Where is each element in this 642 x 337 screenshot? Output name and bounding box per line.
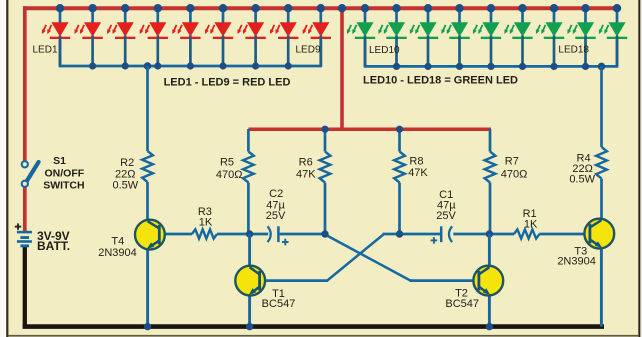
svg-text:470Ω: 470Ω: [501, 168, 528, 180]
svg-text:BC547: BC547: [262, 298, 296, 310]
wire: T1 collector/emitter vertical: [248, 234, 251, 267]
LED6 (red): [205, 10, 233, 66]
wire: T4 emitter to ground: [146, 248, 149, 327]
LED8 (red): [270, 10, 298, 66]
wire: T1 base horizontal: [261, 279, 328, 282]
capacitor C2 47u 25V: [268, 226, 279, 242]
C1 plus sign: [431, 239, 438, 241]
transistor T3 2N3904: [584, 219, 614, 249]
svg-text:47K: 47K: [296, 168, 316, 180]
junction: red drop on top rail: [338, 4, 346, 12]
resistor R3 1K: [192, 229, 217, 238]
LED13 (green): [441, 10, 469, 66]
svg-text:S1: S1: [53, 155, 66, 167]
LED11 (green): [378, 10, 406, 66]
wire: top positive supply rail: [23, 6, 621, 10]
svg-text:2N3904: 2N3904: [557, 255, 596, 267]
wire: R1 to T3 base: [540, 233, 589, 236]
svg-text:C2: C2: [269, 188, 283, 200]
C2 plus sign: [282, 241, 289, 243]
svg-text:LED1: LED1: [32, 45, 57, 56]
wire: red drop from top rail to mid rail: [340, 8, 344, 131]
junction dots on mid rail: [321, 126, 328, 133]
battery BATT 3V-9V: [17, 231, 32, 247]
svg-text:BC547: BC547: [445, 298, 479, 310]
resistor R1 1K: [514, 229, 540, 238]
capacitor C1 47u 25V: [441, 226, 452, 242]
LED4 (red): [140, 10, 168, 66]
wire: ground rail (battery negative): [23, 246, 27, 327]
LED14 (green): [473, 10, 501, 66]
svg-text:R8: R8: [409, 156, 423, 168]
wire: diagonal R6-junction to T2 base: [325, 234, 411, 280]
svg-text:0.5W: 0.5W: [569, 174, 595, 186]
resistor R4 22ohm 0.5W: [596, 66, 607, 220]
svg-text:T4: T4: [111, 236, 124, 248]
wire: R3 to C2: [217, 233, 268, 236]
wire: green LED cathode bus: [364, 40, 367, 67]
junction dots on ground rail: [144, 323, 151, 330]
junction dots on base line: [246, 230, 253, 237]
wire: T2 collector/emitter vertical: [488, 234, 491, 267]
junction: R4 tap on green bus: [598, 63, 606, 71]
svg-text:0.5W: 0.5W: [113, 180, 139, 192]
resistor R8 47K: [394, 129, 405, 234]
resistor R5 470ohm: [243, 129, 254, 234]
resistor R6 47K: [320, 129, 331, 234]
svg-text:R5: R5: [220, 157, 234, 169]
LED3 (red): [107, 10, 135, 66]
svg-text:2N3904: 2N3904: [98, 247, 137, 259]
junction dots: red LED bus: [89, 62, 96, 69]
svg-text:25V: 25V: [436, 210, 456, 222]
wire: T3 emitter to ground: [600, 247, 603, 327]
wire: diagonal T1 base to right line: [327, 234, 384, 280]
LED10 (green): [347, 10, 375, 66]
LED5 (red): [172, 10, 200, 66]
switch S1: [22, 161, 39, 187]
transistor T2 BC547: [473, 266, 503, 296]
wire: mid positive rail feeding collector resistors: [248, 127, 491, 131]
svg-text:470Ω: 470Ω: [216, 169, 243, 181]
LED9 (red): [303, 10, 331, 66]
LED2 (red): [75, 10, 103, 66]
wire: to R8 junction and C1: [383, 233, 440, 236]
svg-text:1K: 1K: [199, 216, 213, 228]
svg-text:LED18: LED18: [558, 45, 589, 56]
wire: left supply from rail to switch: [23, 6, 27, 161]
svg-text:LED10 - LED18 = GREEN LED: LED10 - LED18 = GREEN LED: [363, 74, 518, 86]
svg-text:R6: R6: [299, 157, 313, 169]
transistor T1 BC547: [235, 266, 265, 296]
junction dots: top rail: [56, 4, 64, 12]
svg-text:ON/OFF: ON/OFF: [45, 167, 85, 179]
svg-text:R7: R7: [505, 156, 519, 168]
LED16 (green): [536, 10, 564, 66]
LED12 (green): [410, 10, 438, 66]
transistor T4 2N3904: [135, 220, 165, 250]
wire: switch to battery positive: [23, 187, 27, 233]
resistor R7 470ohm: [485, 129, 496, 234]
svg-text:LED10: LED10: [369, 45, 400, 56]
svg-text:BATT.: BATT.: [37, 239, 70, 253]
svg-text:47K: 47K: [408, 167, 428, 179]
wire: C1 to R1: [453, 233, 514, 236]
svg-text:1K: 1K: [524, 219, 538, 231]
junction: R2 tap on red bus: [144, 62, 152, 70]
svg-text:22Ω: 22Ω: [115, 168, 135, 180]
resistor R2 22ohm 0.5W: [142, 66, 153, 221]
svg-text:25V: 25V: [266, 210, 286, 222]
svg-text:SWITCH: SWITCH: [43, 179, 84, 191]
wire: T4 base to R3: [161, 233, 192, 236]
LED17 (green): [567, 10, 595, 66]
wire: red LED cathode bus: [59, 40, 62, 66]
junction dots: green LED bus: [393, 63, 400, 70]
battery plus sign: [15, 226, 21, 228]
LED7 (red): [238, 10, 266, 66]
LED18 (green): [599, 10, 627, 66]
svg-text:R2: R2: [120, 157, 134, 169]
LED1 (red): [42, 10, 70, 66]
wire: C2 to R6 junction: [280, 233, 326, 236]
svg-text:LED9: LED9: [295, 45, 320, 56]
svg-text:LED1 - LED9 = RED LED: LED1 - LED9 = RED LED: [164, 77, 291, 89]
LED15 (green): [504, 10, 532, 66]
